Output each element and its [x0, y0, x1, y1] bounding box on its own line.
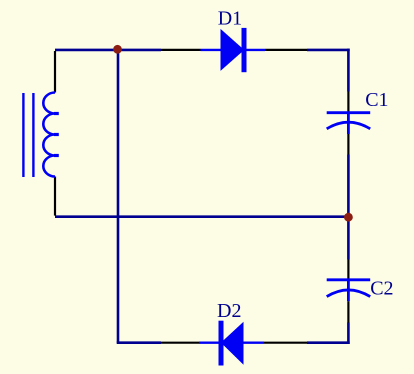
junction node top: [113, 45, 122, 54]
winding join nub 3: [54, 154, 59, 157]
wire top-right horizontal: [307, 49, 350, 52]
wire left vertical: [117, 49, 120, 343]
capacitor C1: [327, 113, 371, 134]
capacitor C2 top pin: [347, 260, 349, 280]
diode D2: [199, 321, 264, 366]
transformer top pin: [54, 51, 56, 93]
transformer winding: [43, 93, 55, 177]
svg-text:C2: C2: [370, 277, 393, 299]
wire bottom-left horizontal: [117, 341, 161, 344]
svg-text:D2: D2: [217, 300, 241, 322]
transformer core line 1: [22, 93, 24, 177]
transformer core line 2: [32, 93, 34, 177]
capacitor C1 bottom pin: [347, 134, 349, 155]
diode D2 right pin: [264, 342, 307, 344]
winding join nub 2: [54, 133, 59, 136]
wire right vertical middle: [347, 155, 350, 260]
capacitor C2: [327, 280, 371, 301]
wire top-left horizontal: [55, 49, 161, 52]
capacitor C1 top pin: [347, 92, 349, 113]
diode D2 left pin: [161, 342, 199, 344]
winding join nub 1: [54, 112, 59, 115]
diode D1 left pin: [161, 49, 201, 51]
svg-text:C1: C1: [365, 89, 388, 111]
wire right vertical upper: [347, 49, 350, 92]
diode D1 right pin: [265, 49, 307, 51]
transformer bottom pin: [54, 177, 56, 216]
junction node right: [344, 213, 353, 222]
wire right vertical lower: [347, 323, 350, 345]
wire bottom-right horizontal: [307, 341, 350, 344]
diode D1: [201, 28, 266, 72]
svg-text:D1: D1: [218, 8, 242, 30]
wire middle horizontal: [55, 215, 348, 218]
capacitor C2 bottom pin: [347, 301, 349, 323]
